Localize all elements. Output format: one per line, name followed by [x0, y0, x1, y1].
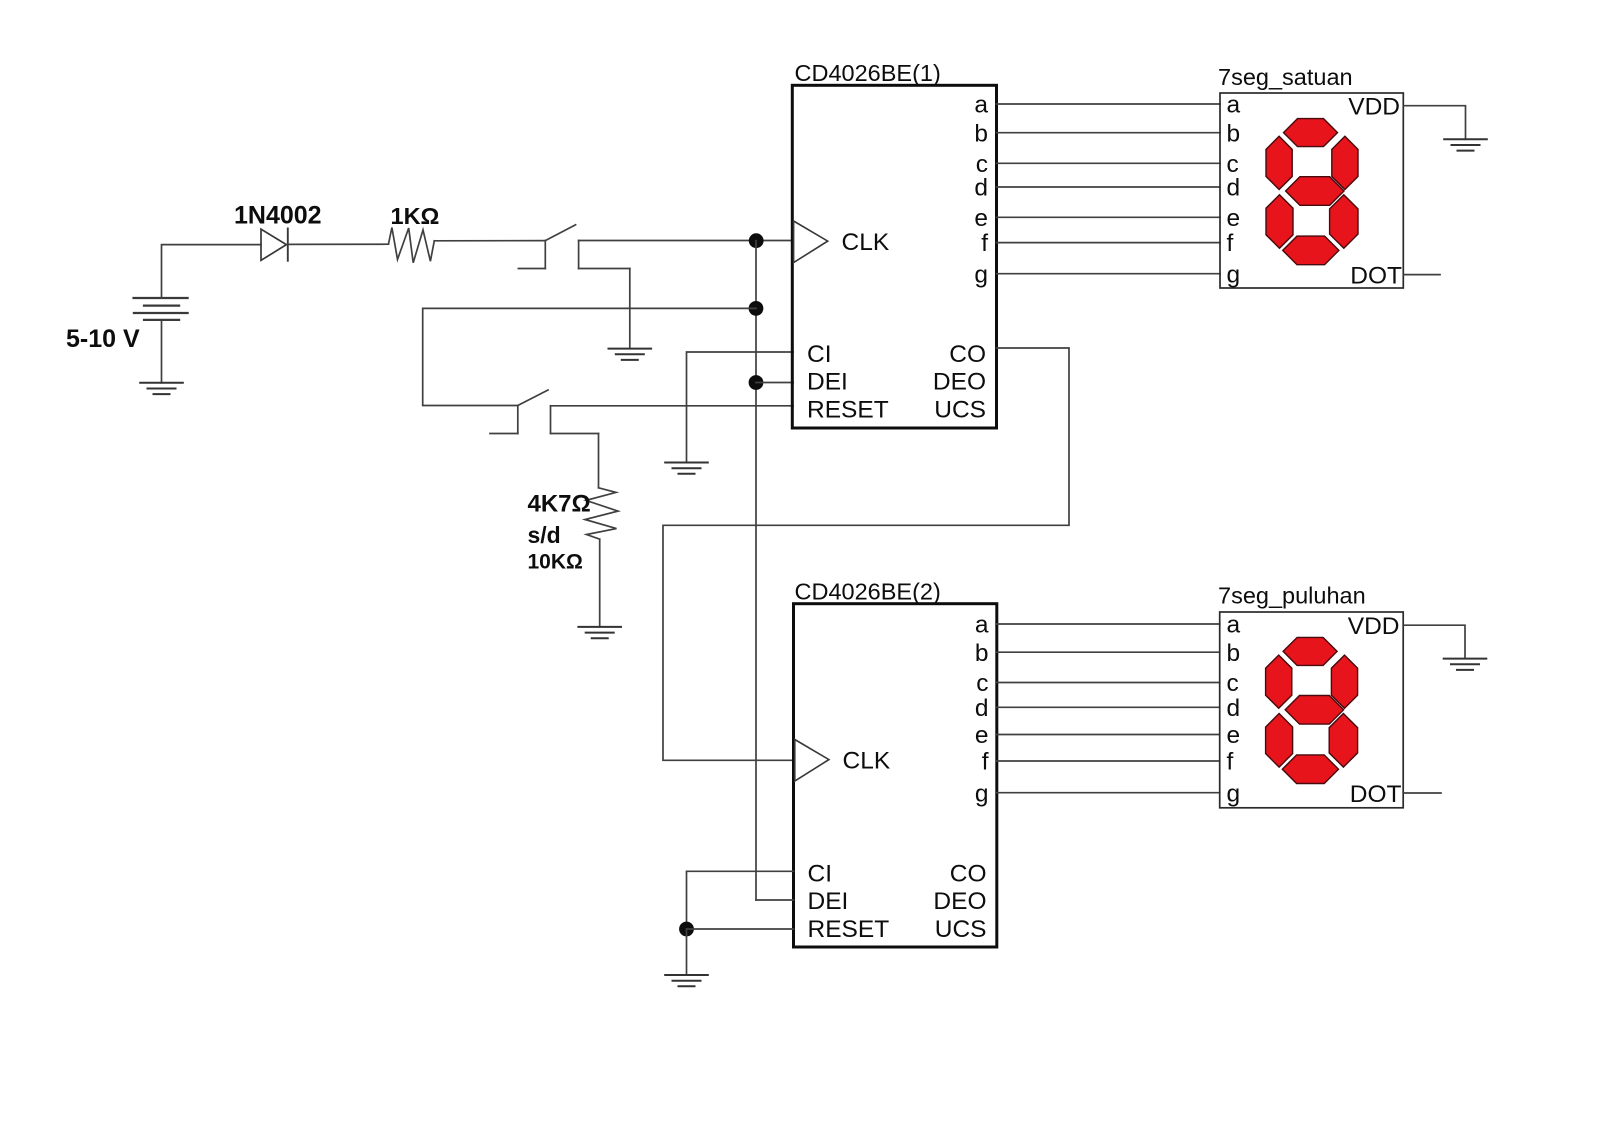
svg-text:e: e — [974, 205, 988, 232]
svg-text:c: c — [976, 670, 988, 697]
svg-text:CD4026BE(1): CD4026BE(1) — [795, 60, 941, 86]
vertical bus wire from CLK1 node down to DEI2 — [755, 241, 757, 900]
svg-text:b: b — [975, 640, 989, 667]
resistor 4K7-10K (vertical) — [585, 488, 618, 539]
wire switch1 lower contact to ground — [629, 269, 631, 349]
svg-text:1N4002: 1N4002 — [234, 202, 322, 230]
ground (CI1) — [664, 463, 709, 474]
wire CI2 loop to reset node — [687, 871, 794, 929]
wire segment b U1 to display1 — [997, 132, 1221, 134]
IC U1 CD4026BE(1) box — [792, 85, 996, 428]
wire RESET2 node to ground — [686, 929, 688, 975]
wire segment d U1 to display1 — [997, 186, 1221, 188]
node dot CLK1 — [749, 233, 764, 248]
wire segment e U2 to display2 — [997, 734, 1220, 736]
svg-text:b: b — [1227, 120, 1241, 147]
svg-text:g: g — [975, 780, 989, 807]
svg-text:UCS: UCS — [934, 396, 986, 423]
svg-text:7seg_satuan: 7seg_satuan — [1218, 64, 1353, 90]
wire segment e U1 to display1 — [997, 216, 1221, 218]
battery 5-10 V — [132, 298, 188, 320]
svg-text:CLK: CLK — [842, 229, 890, 256]
svg-text:d: d — [974, 175, 988, 202]
svg-text:1KΩ: 1KΩ — [391, 203, 440, 229]
wire switch2 to RESET1 — [551, 405, 794, 407]
svg-text:e: e — [975, 722, 989, 749]
wire segment d U2 to display2 — [997, 706, 1220, 708]
svg-text:CI: CI — [808, 861, 833, 888]
svg-text:c: c — [1227, 670, 1239, 697]
svg-text:a: a — [974, 92, 988, 119]
svg-text:DEO: DEO — [933, 888, 986, 915]
svg-text:f: f — [1227, 230, 1234, 257]
svg-text:a: a — [975, 612, 989, 639]
svg-text:g: g — [1227, 780, 1241, 807]
wire resistor 4K7 to ground — [599, 539, 601, 627]
wire segment c U2 to display2 — [997, 682, 1220, 684]
node dot RESET2 — [679, 922, 694, 937]
svg-text:d: d — [975, 695, 989, 722]
svg-text:e: e — [1227, 205, 1241, 232]
svg-text:RESET: RESET — [807, 396, 889, 423]
ground (VDD2) — [1443, 659, 1488, 670]
wire segment f U2 to display2 — [997, 760, 1220, 762]
ground (RESET2) — [664, 975, 709, 986]
ground (4K7) — [577, 627, 622, 638]
wire segment g U1 to display1 — [997, 273, 1221, 275]
svg-text:f: f — [982, 749, 989, 776]
svg-text:DEI: DEI — [808, 888, 849, 915]
7-segment digit 8 DS1 — [1266, 119, 1358, 265]
node dot mid (wire to reset switch) — [749, 301, 764, 316]
wire CI1 to ground — [687, 352, 794, 463]
resistor 1KΩ — [389, 228, 435, 263]
wire DEI1 node to IC1 — [756, 382, 793, 384]
display DS1 7seg_satuan box — [1220, 93, 1403, 288]
wire segment c U1 to display1 — [997, 162, 1221, 164]
svg-text:g: g — [974, 261, 988, 288]
wire switch2 lower contact down to resistor — [598, 434, 600, 488]
svg-text:DEO: DEO — [933, 368, 986, 395]
node dot DEI1 — [749, 375, 764, 390]
wire segment b U2 to display2 — [997, 651, 1220, 653]
svg-text:7seg_puluhan: 7seg_puluhan — [1218, 583, 1366, 609]
ground (switch1) — [608, 349, 653, 360]
wire VDD2 to ground — [1403, 625, 1465, 658]
svg-text:d: d — [1227, 695, 1241, 722]
svg-text:4K7Ω: 4K7Ω — [528, 491, 591, 518]
wire battery top to diode — [162, 245, 262, 298]
display DS2 7seg_puluhan box — [1220, 612, 1404, 808]
wire DOT2 stub — [1403, 792, 1441, 794]
svg-text:RESET: RESET — [808, 916, 890, 943]
wire resistor to switch1 — [434, 240, 545, 242]
wire DOT1 stub — [1403, 274, 1440, 276]
switch S2 (reset pushbutton) — [490, 390, 599, 434]
svg-text:g: g — [1227, 261, 1241, 288]
svg-text:b: b — [1227, 640, 1241, 667]
wire battery bottom to ground — [161, 320, 163, 383]
wire RESET2 — [687, 928, 794, 930]
wire CO1 to CLK2 — [663, 348, 1069, 760]
wire DEI2 from vertical bus — [756, 899, 794, 901]
svg-text:a: a — [1227, 612, 1241, 639]
svg-text:DEI: DEI — [807, 368, 848, 395]
wire switch1 to CLK1 with junction — [579, 240, 794, 242]
IC U2 CD4026BE(2) box — [794, 604, 997, 947]
svg-text:CO: CO — [950, 861, 987, 888]
wire segment a U1 to display1 — [997, 103, 1221, 105]
wire segment f U1 to display1 — [997, 242, 1221, 244]
svg-text:CI: CI — [807, 341, 832, 368]
wire VDD1 to ground — [1403, 106, 1465, 140]
svg-text:VDD: VDD — [1348, 613, 1400, 640]
wire segment a U2 to display2 — [997, 623, 1220, 625]
ground (VDD1) — [1443, 139, 1488, 150]
svg-text:VDD: VDD — [1348, 94, 1400, 121]
svg-text:CO: CO — [949, 341, 986, 368]
svg-text:a: a — [1227, 92, 1241, 119]
svg-text:f: f — [981, 230, 988, 257]
svg-text:5-10 V: 5-10 V — [66, 325, 140, 353]
svg-text:CD4026BE(2): CD4026BE(2) — [795, 579, 941, 605]
svg-text:s/d: s/d — [528, 522, 561, 548]
svg-text:b: b — [974, 120, 988, 147]
wire node to left corner toward switch2 — [423, 308, 756, 405]
7-segment digit 8 DS2 — [1266, 637, 1358, 783]
clock input triangle U1 — [794, 221, 828, 263]
clock input triangle U2 — [795, 740, 829, 782]
svg-text:f: f — [1227, 749, 1234, 776]
svg-text:e: e — [1227, 722, 1241, 749]
svg-text:10KΩ: 10KΩ — [528, 551, 583, 574]
diode 1N4002 — [261, 228, 288, 262]
svg-text:d: d — [1227, 175, 1241, 202]
svg-text:CLK: CLK — [843, 748, 891, 775]
svg-text:DOT: DOT — [1350, 781, 1402, 808]
wire segment g U2 to display2 — [997, 792, 1220, 794]
ground (battery) — [139, 383, 184, 394]
svg-text:UCS: UCS — [935, 916, 987, 943]
svg-text:DOT: DOT — [1350, 262, 1402, 289]
switch S1 (clock pushbutton) — [518, 225, 629, 269]
wire diode to resistor — [288, 243, 389, 245]
